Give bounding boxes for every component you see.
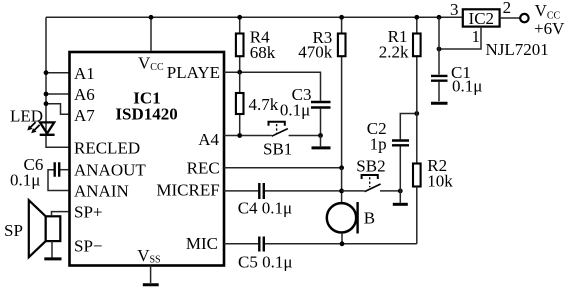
svg-text:0.1μ: 0.1μ	[280, 101, 310, 120]
ground SB2	[393, 191, 408, 204]
node C1 rail junction	[437, 15, 442, 20]
wire Vcc pin drop	[150, 17, 152, 51]
node R3 rail junction	[339, 15, 344, 20]
svg-text:4.7k: 4.7k	[249, 95, 279, 114]
svg-text:+6V: +6V	[534, 19, 565, 38]
ground speaker	[44, 241, 61, 259]
svg-text:ISD1420: ISD1420	[115, 105, 177, 124]
svg-text:C4 0.1μ: C4 0.1μ	[238, 199, 292, 218]
switch SB2	[342, 175, 401, 192]
svg-text:MICREF: MICREF	[156, 180, 219, 199]
wire REC to mic link	[341, 168, 343, 203]
svg-text:NJL7201: NJL7201	[486, 40, 549, 59]
IC1 ISD1420 box	[70, 52, 225, 266]
wire A4 line	[224, 135, 272, 137]
svg-text:B: B	[364, 208, 375, 227]
wire left column from rail to RECLED	[46, 17, 69, 147]
node pin1/C1 junction	[437, 47, 442, 52]
switch SB1	[269, 122, 321, 136]
svg-text:470k: 470k	[298, 42, 333, 61]
node PLAYE/R4 junction	[237, 70, 242, 75]
microphone B	[327, 202, 358, 244]
IC2 regulator NJL7201	[463, 9, 500, 28]
node R1 rail junction	[414, 15, 419, 20]
node C2/R1 junction	[414, 111, 419, 116]
wire REC line	[224, 167, 342, 169]
svg-text:PLAYE: PLAYE	[167, 63, 220, 82]
svg-text:2: 2	[503, 0, 512, 17]
svg-text:1: 1	[472, 27, 481, 46]
capacitor C2	[392, 114, 417, 191]
svg-text:A1: A1	[74, 64, 95, 83]
ground C1	[431, 102, 448, 105]
capacitor C4	[224, 183, 342, 199]
svg-text:RECLED: RECLED	[74, 139, 140, 158]
node MICREF junction	[339, 189, 344, 194]
node A1 junction	[44, 70, 49, 75]
capacitor C6	[48, 162, 69, 190]
capacitor C5	[224, 237, 417, 252]
svg-text:ANAOUT: ANAOUT	[74, 160, 146, 179]
node Vcc rail junction	[149, 15, 154, 20]
svg-text:MIC: MIC	[186, 234, 218, 253]
svg-text:SP−: SP−	[74, 237, 103, 256]
svg-text:LED: LED	[10, 107, 43, 126]
capacitor C3	[311, 102, 331, 136]
svg-text:A6: A6	[74, 85, 95, 104]
node A7/LED junction	[44, 101, 49, 106]
svg-text:ANAIN: ANAIN	[74, 181, 129, 200]
capacitor C1	[431, 17, 448, 101]
node A6 junction	[44, 92, 49, 97]
node A4/4.7k junction	[237, 133, 242, 138]
svg-text:SP: SP	[4, 221, 23, 240]
wire IC2 pin2 to terminal	[500, 17, 520, 19]
resistor R1	[413, 17, 421, 163]
node A4/C3 junction	[318, 133, 323, 138]
LED	[27, 122, 54, 135]
svg-text:A7: A7	[74, 106, 95, 125]
wire PLAYE line	[224, 72, 321, 101]
svg-text:3: 3	[450, 0, 459, 19]
node SB2/C2 junction	[398, 189, 403, 194]
svg-text:2.2k: 2.2k	[379, 43, 409, 62]
svg-text:A4: A4	[198, 130, 219, 149]
svg-text:10k: 10k	[427, 171, 453, 190]
node R4 rail junction	[237, 15, 242, 20]
speaker SP	[29, 200, 69, 257]
resistor R4	[236, 17, 244, 72]
resistor 4.7k	[236, 72, 244, 135]
wire A1 stub	[46, 72, 69, 74]
svg-text:IC2: IC2	[469, 9, 495, 28]
svg-text:SP+: SP+	[74, 202, 103, 221]
node MIC/mic junction	[340, 241, 345, 246]
wire IC2 pin1	[439, 27, 481, 49]
wire A7 stub	[46, 104, 69, 115]
node REC junction	[339, 165, 344, 170]
svg-text:68k: 68k	[250, 43, 276, 62]
ground Vss	[143, 267, 159, 285]
resistor R2	[413, 164, 421, 244]
wire Vcc top rail	[46, 16, 463, 18]
svg-text:C5 0.1μ: C5 0.1μ	[238, 253, 292, 272]
svg-text:SB1: SB1	[263, 140, 292, 159]
terminal Vcc	[520, 14, 528, 22]
wire A6 stub	[46, 93, 69, 95]
ground SB1/C3	[312, 136, 331, 148]
resistor R3	[338, 17, 346, 168]
svg-text:SB2: SB2	[356, 156, 385, 175]
svg-text:REC: REC	[187, 159, 220, 178]
svg-text:0.1μ: 0.1μ	[452, 77, 482, 96]
svg-text:0.1μ: 0.1μ	[10, 171, 40, 190]
svg-text:1p: 1p	[370, 135, 387, 154]
